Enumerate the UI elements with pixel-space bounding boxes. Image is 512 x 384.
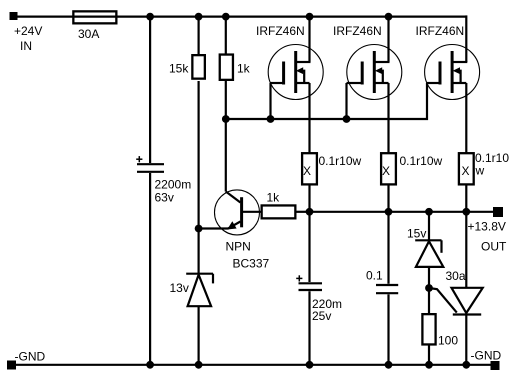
- wire M2 source column to C0.1: [387, 83, 389, 284]
- svg-text:30A: 30A: [78, 27, 99, 41]
- wire Q4 base to R1k: [243, 211, 261, 213]
- capacitor C3 0.1: [376, 285, 398, 293]
- wire C0.1 to ground: [387, 294, 389, 364]
- junction dots output rail: [306, 208, 471, 216]
- wire gate bus: [226, 83, 427, 119]
- svg-text:X: X: [303, 164, 311, 178]
- junction dots gate bus: [222, 115, 350, 123]
- wire zener D3 anode to R100 to ground: [428, 267, 430, 365]
- svg-text:15k: 15k: [169, 62, 189, 76]
- wire SCR cathode to ground: [465, 315, 467, 365]
- resistor R100 100: [422, 314, 435, 344]
- wire M3 drain drop: [465, 15, 467, 62]
- wire M3 source / SCR column: [465, 83, 467, 288]
- svg-text:0.1r10w: 0.1r10w: [400, 154, 443, 168]
- junction dots top rail: [146, 13, 392, 21]
- resistor R1k (horizontal, base): [262, 205, 296, 218]
- zener D3 15v: [415, 240, 443, 267]
- wire left column C1 bottom to ground: [149, 173, 151, 365]
- svg-text:1k: 1k: [267, 191, 281, 205]
- svg-text:-GND: -GND: [471, 349, 502, 363]
- svg-text:63v: 63v: [155, 191, 174, 205]
- terminal +13.8V OUT: [493, 207, 503, 217]
- resistor R4 0.1r10w (middle): [381, 153, 396, 184]
- terminal -GND left: [7, 361, 16, 370]
- capacitor C1 2200m 63v: [137, 164, 164, 172]
- wire R1k to output node: [297, 211, 310, 213]
- svg-text:IRFZ46N: IRFZ46N: [256, 24, 305, 38]
- resistor R5 0.1r10w (right): [459, 153, 474, 184]
- wire 1k column / Q4 collector: [225, 17, 227, 192]
- plus sign C2: [296, 275, 302, 281]
- wire zener D1 anode to ground: [198, 306, 200, 365]
- svg-text:100: 100: [438, 334, 458, 348]
- wire C220m to ground: [308, 291, 310, 365]
- capacitor C2 220m 25v: [299, 283, 323, 290]
- svg-text:X: X: [462, 164, 470, 178]
- transistor Q4 NPN BC337: [215, 190, 260, 235]
- svg-text:2200m: 2200m: [155, 178, 192, 192]
- svg-text:-GND: -GND: [15, 350, 46, 364]
- terminal +24V IN: [10, 12, 18, 20]
- SCR 30a: [429, 288, 483, 315]
- svg-text:IRFZ46N: IRFZ46N: [333, 24, 382, 38]
- junction dot emitter node: [195, 225, 203, 233]
- wire 15k bottom to zener D1 through emitter node: [198, 81, 200, 274]
- zener D1 13v: [186, 274, 213, 307]
- wire left column to C1 top plate: [149, 17, 151, 163]
- svg-text:+24V: +24V: [14, 24, 42, 38]
- svg-text:X: X: [382, 164, 390, 178]
- svg-text:1k: 1k: [237, 62, 251, 76]
- svg-text:IN: IN: [20, 39, 32, 53]
- wire M1 source column to C220m: [308, 83, 310, 282]
- wire output rail: [310, 211, 495, 213]
- junction dot SCR gate node: [425, 284, 433, 292]
- svg-text:OUT: OUT: [481, 240, 507, 254]
- svg-text:0.1r10w: 0.1r10w: [319, 154, 362, 168]
- svg-text:IRFZ46N: IRFZ46N: [416, 24, 465, 38]
- svg-text:w: w: [475, 164, 485, 178]
- terminal -GND right: [491, 361, 500, 370]
- MOSFET Q3 IRFZ46N: [425, 45, 480, 100]
- wire ground rail: [11, 364, 494, 366]
- wire top rail +24V: [16, 16, 466, 18]
- svg-text:NPN: NPN: [226, 240, 251, 254]
- svg-text:25v: 25v: [312, 309, 331, 323]
- fuse 30A: [73, 11, 116, 23]
- svg-text:30a: 30a: [446, 269, 466, 283]
- svg-text:13v: 13v: [170, 281, 189, 295]
- resistor R3 0.1r10w (left): [302, 153, 317, 184]
- resistor 15k: [192, 55, 205, 79]
- MOSFET Q1 IRFZ46N: [268, 17, 323, 119]
- svg-text:15v: 15v: [407, 227, 426, 241]
- svg-text:0.1: 0.1: [366, 269, 383, 283]
- resistor 1k (top): [220, 55, 233, 80]
- plus sign C1: [136, 156, 142, 162]
- svg-text:BC337: BC337: [233, 257, 270, 271]
- svg-text:+13.8V: +13.8V: [468, 220, 506, 234]
- MOSFET Q2 IRFZ46N: [347, 17, 402, 119]
- wire 15k column top: [198, 17, 200, 54]
- wire zener D3 column: [428, 212, 430, 241]
- wire emitter to 15k column: [199, 227, 229, 229]
- junction dots ground rail: [146, 361, 470, 369]
